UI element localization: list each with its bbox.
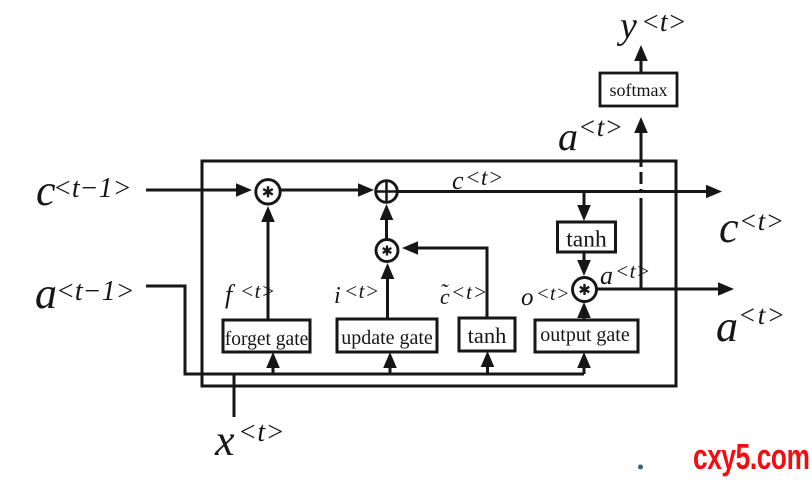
svg-text:<t>: <t> — [536, 283, 570, 305]
svg-text:softmax: softmax — [610, 80, 668, 100]
svg-text:<t>: <t> — [739, 206, 784, 236]
multiply node *3 — [573, 278, 597, 302]
svg-text:<t>: <t> — [615, 259, 651, 283]
add node + — [376, 181, 398, 203]
wire tanh to *3 — [577, 252, 591, 276]
wire branch to update gate — [383, 352, 397, 374]
multiply node *1 — [256, 180, 280, 204]
wire branch to forget gate — [266, 352, 280, 374]
svg-text:i: i — [334, 283, 341, 309]
wire update gate to *2 — [381, 263, 395, 319]
svg-text:a: a — [600, 261, 613, 290]
tanh box (cell output) — [558, 222, 616, 252]
wire branch to tanh — [481, 351, 495, 374]
wire a output — [596, 282, 734, 296]
output gate box — [535, 320, 638, 352]
wire a up to softmax (dash-dot) — [634, 117, 648, 289]
wire *2 to + — [380, 204, 394, 239]
svg-text:cxy5.com: cxy5.com — [693, 437, 810, 477]
wire branch down into tanh — [577, 192, 591, 221]
svg-text:<t>: <t> — [451, 280, 488, 304]
wire *1 to + — [280, 183, 374, 197]
svg-text:<t>: <t> — [738, 300, 786, 330]
svg-text:<t>: <t> — [238, 417, 285, 448]
svg-text:c: c — [452, 166, 464, 195]
wire x input — [233, 374, 236, 417]
wire c input — [146, 183, 252, 197]
wire forget gate to *1 — [261, 206, 275, 320]
svg-text:tanh: tanh — [566, 227, 607, 253]
svg-text:<t−1>: <t−1> — [56, 276, 134, 307]
svg-text:<t>: <t> — [578, 112, 623, 142]
svg-text:update gate: update gate — [341, 327, 433, 349]
wire output gate to *3 — [577, 302, 591, 320]
blue dot — [638, 465, 643, 470]
wire candidate tanh to *2 — [402, 241, 487, 318]
svg-text:tanh: tanh — [468, 323, 507, 348]
update gate box — [337, 319, 437, 352]
svg-text:<t>: <t> — [240, 279, 276, 303]
svg-text:<t>: <t> — [641, 7, 687, 38]
wire branch to output gate — [577, 352, 591, 374]
svg-text:output gate: output gate — [540, 324, 630, 346]
svg-text:a: a — [35, 269, 57, 318]
wire c line to output — [397, 185, 722, 199]
LSTM cell box — [202, 161, 676, 386]
svg-text:c: c — [719, 203, 739, 252]
svg-text:x: x — [214, 416, 235, 465]
wire a input — [146, 286, 584, 374]
svg-text:a: a — [558, 114, 578, 159]
svg-text:o: o — [521, 284, 534, 311]
softmax box — [600, 73, 677, 106]
wire softmax to y — [634, 45, 648, 73]
svg-text:<t>: <t> — [344, 279, 380, 303]
multiply node *2 — [376, 240, 398, 262]
tanh box (candidate) — [459, 318, 515, 351]
svg-text:y: y — [616, 5, 637, 47]
svg-text:forget gate: forget gate — [225, 329, 309, 350]
forget gate box — [223, 320, 310, 352]
svg-text:a: a — [716, 302, 738, 351]
svg-text:<t−1>: <t−1> — [53, 173, 131, 204]
svg-text:<t>: <t> — [465, 165, 504, 190]
